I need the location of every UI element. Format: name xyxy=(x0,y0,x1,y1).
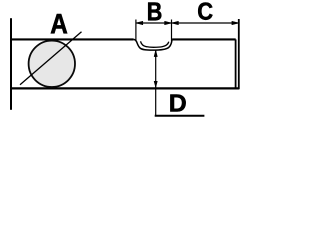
D label underline xyxy=(155,115,205,117)
shaft bottom edge xyxy=(10,87,239,89)
arrow C left xyxy=(172,21,179,24)
diagonal leader line through circle xyxy=(20,32,82,85)
label A xyxy=(51,14,67,33)
label C xyxy=(198,2,212,19)
groove outer silhouette profile xyxy=(134,39,173,50)
label B xyxy=(148,3,161,21)
arrow B right xyxy=(165,21,172,24)
right end face / C extension line xyxy=(238,19,240,89)
dimension line shared by B and C xyxy=(136,22,239,24)
arrow B left xyxy=(136,21,143,24)
detail circle A (grey filled) xyxy=(29,41,75,87)
shaft left end face with extension line above and below xyxy=(10,18,12,110)
B right / C left extension line xyxy=(171,20,173,42)
right end chamfer line xyxy=(235,39,237,88)
B left extension line xyxy=(135,20,137,41)
label D xyxy=(170,95,185,112)
groove far-side bottom edge xyxy=(141,41,169,47)
arrow D down (at bottom surface) xyxy=(154,81,157,87)
shaft top edge left of groove xyxy=(10,38,134,40)
arrow C right xyxy=(232,21,239,24)
arrow D up (at groove bottom) xyxy=(154,50,157,56)
D dimension vertical line xyxy=(155,50,157,115)
shaft top edge right of groove xyxy=(172,38,236,40)
